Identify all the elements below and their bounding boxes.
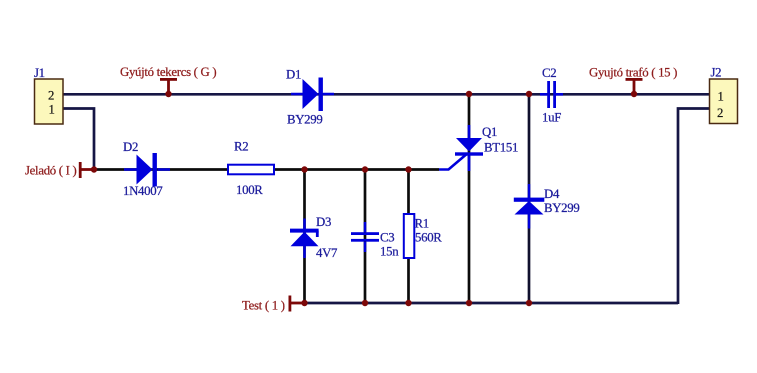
terminal Gyujto trafo (15) [626,78,643,94]
junction Jelado node [91,166,97,172]
svg-text:BT151: BT151 [484,141,518,155]
svg-text:1uF: 1uF [542,111,561,125]
svg-text:R2: R2 [234,140,248,154]
wire R1 column [407,170,410,304]
diode D4 [514,184,545,229]
svg-text:J2: J2 [711,66,722,80]
svg-text:560R: 560R [415,231,442,245]
svg-text:2: 2 [717,106,723,120]
junction at tekercs terminal [165,91,171,97]
junction Q1 / bottom rail [466,300,472,306]
junction D3 / middle row [301,166,307,172]
connector J1 [35,79,64,124]
svg-text:BY299: BY299 [544,201,579,215]
svg-text:D2: D2 [123,140,138,154]
wire Q1 column [468,94,471,303]
capacitor C2 [540,81,563,108]
svg-text:Gyujtó trafó ( 15 ): Gyujtó trafó ( 15 ) [589,66,677,80]
svg-text:4V7: 4V7 [316,246,338,260]
terminal Gyujto tekercs (G) [160,78,177,94]
zener diode D3 [290,219,319,259]
junction C3 / bottom rail [362,300,368,306]
svg-text:Jeladó ( I ): Jeladó ( I ) [25,164,77,178]
diode D2 [124,153,170,187]
resistor R2 [228,165,274,175]
junction C3 / middle row [362,166,368,172]
junction at trafo terminal [631,91,637,97]
wire bottom rail (Test net) [305,302,679,305]
svg-text:1N4007: 1N4007 [123,184,163,198]
svg-text:Gyújtó tekercs ( G ): Gyújtó tekercs ( G ) [120,65,216,79]
svg-text:C2: C2 [542,66,556,80]
wire middle row (Jelado to Q1 gate) [94,168,439,171]
svg-text:15n: 15n [380,245,399,259]
svg-text:Test ( 1 ): Test ( 1 ) [242,299,285,313]
svg-text:2: 2 [48,89,54,103]
svg-text:100R: 100R [236,183,263,197]
junction Q1 anode / top rail [466,91,472,97]
junction D4 / bottom rail [526,300,532,306]
svg-text:C3: C3 [380,231,394,245]
svg-text:1: 1 [49,103,55,117]
wire D3 column [303,170,306,304]
junction D4 / top rail [526,91,532,97]
wire J1.1 to Jelado node [63,109,94,170]
svg-text:D1: D1 [286,68,301,82]
junction R1 / middle row [405,166,411,172]
terminal Jelado (I) [79,162,94,178]
thyristor Q1 [439,125,483,171]
wire J2.2 to bottom rail [678,109,710,305]
diode D1 [291,78,334,112]
resistor R1 [404,214,415,258]
wire top rail J1.2 to J2.1 [63,93,710,96]
wire D4 column [528,94,531,303]
svg-text:Q1: Q1 [482,125,497,139]
svg-text:J1: J1 [34,66,45,80]
svg-text:R1: R1 [415,217,429,231]
junction Test node [301,300,307,306]
capacitor C3 [351,222,379,252]
svg-text:BY299: BY299 [287,113,322,127]
junction R1 / bottom rail [405,300,411,306]
terminal Test (1) [289,296,305,312]
svg-text:1: 1 [718,90,724,104]
connector J2 [710,79,738,124]
svg-text:D3: D3 [316,215,331,229]
wire C3 column [364,170,367,304]
svg-text:D4: D4 [544,187,560,201]
